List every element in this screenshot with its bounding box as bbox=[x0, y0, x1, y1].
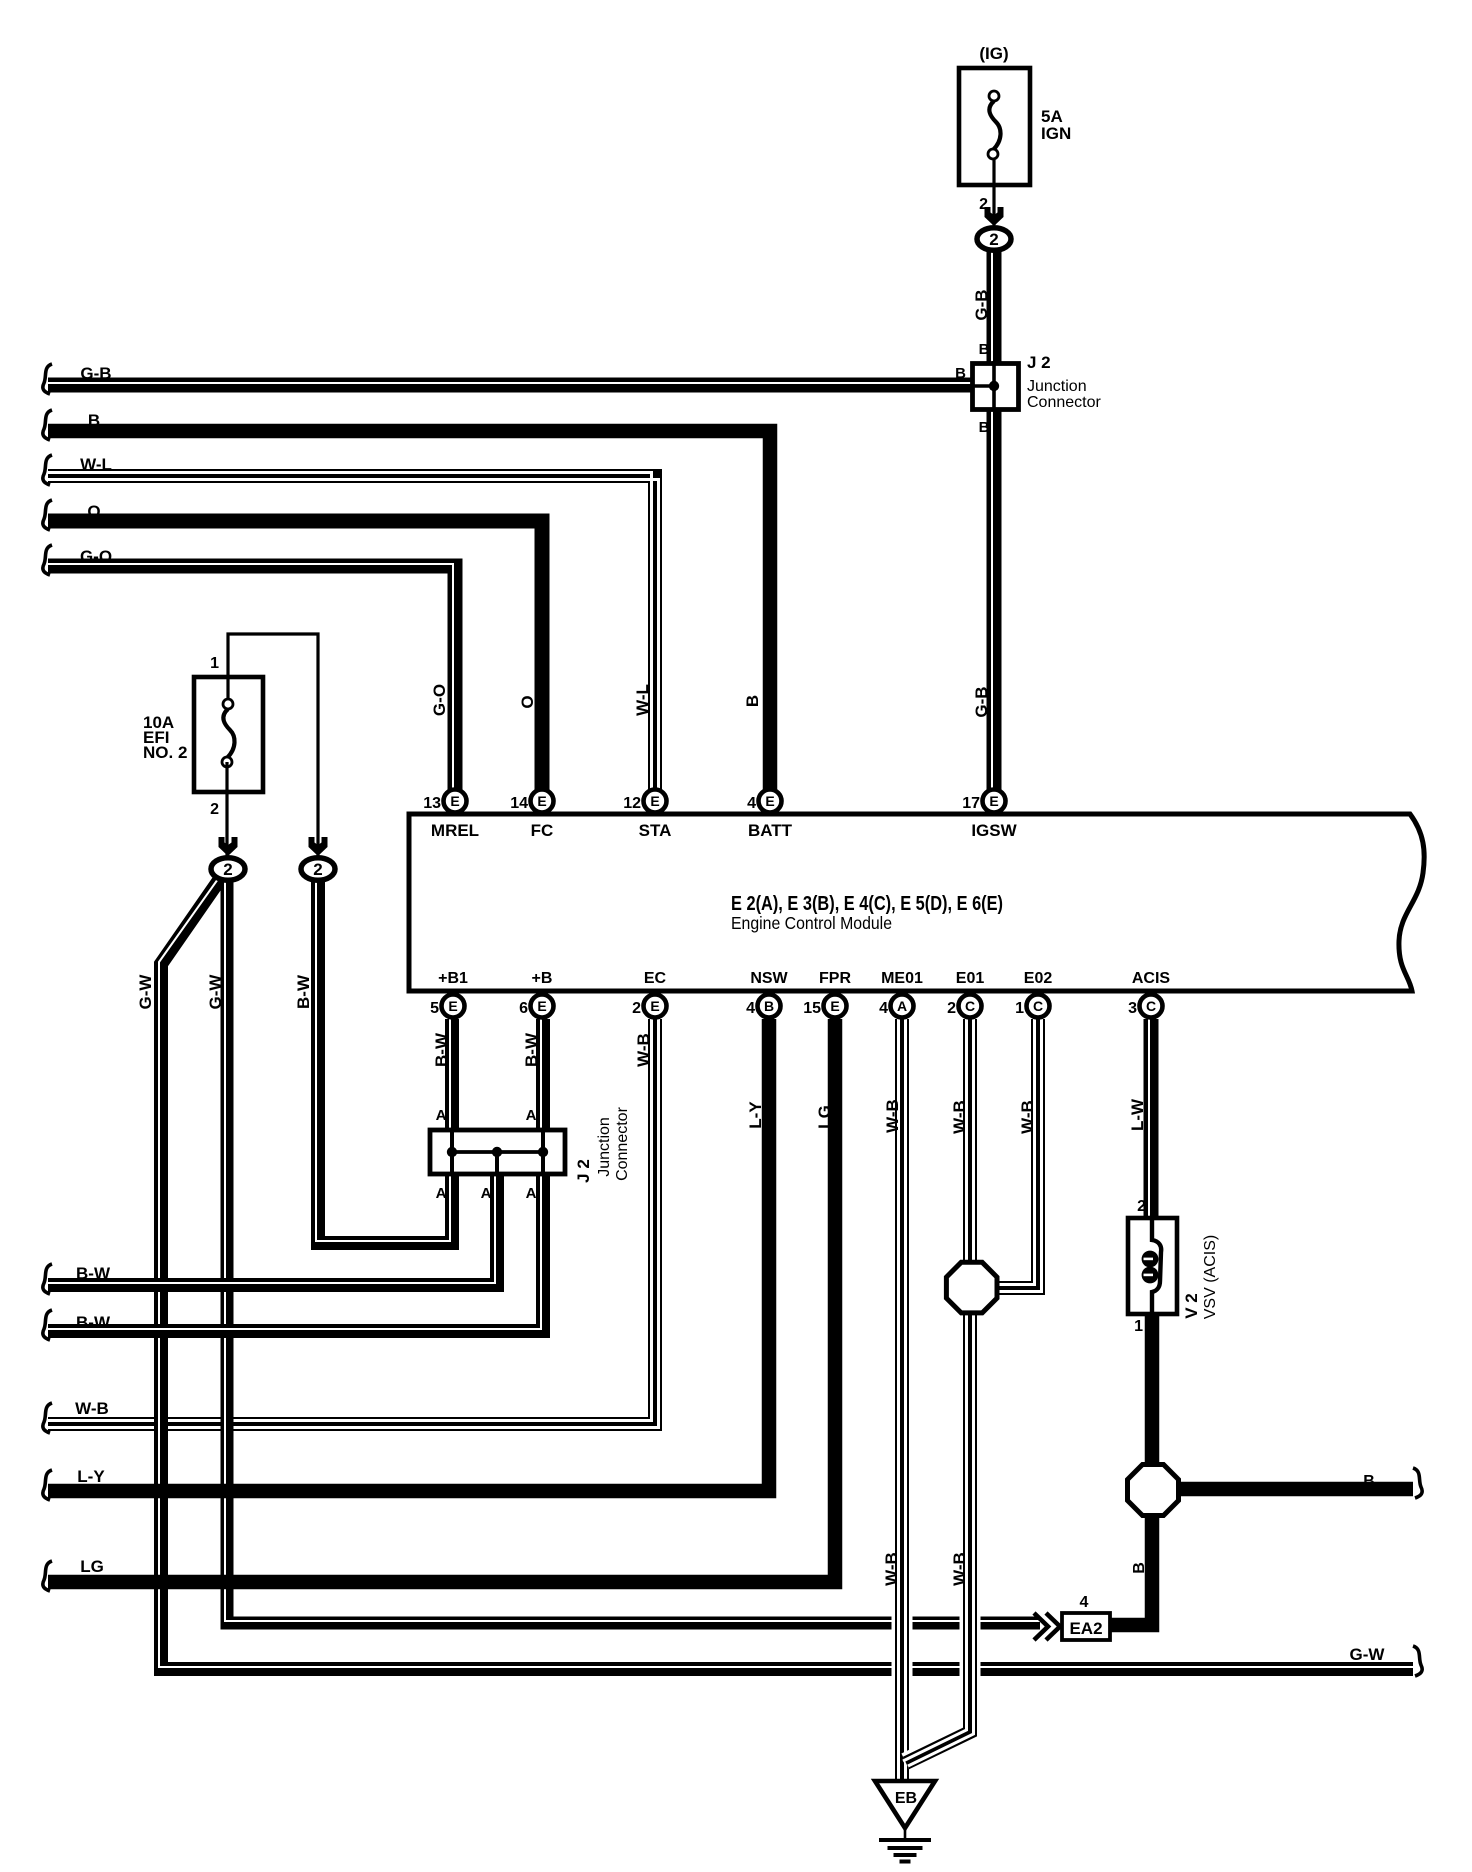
connector EA2 box bbox=[1062, 1613, 1110, 1640]
svg-text:2: 2 bbox=[1137, 1198, 1146, 1215]
svg-text:W-L: W-L bbox=[80, 455, 112, 474]
wire G-O from left edge to ECM pin MREL bbox=[48, 566, 455, 792]
svg-text:2: 2 bbox=[947, 1000, 956, 1017]
svg-text:17: 17 bbox=[962, 795, 980, 812]
svg-text:E: E bbox=[537, 998, 546, 1014]
svg-text:NSW: NSW bbox=[750, 970, 788, 987]
svg-text:A: A bbox=[526, 1185, 537, 1202]
ECM bottom pin 5 (+B1) bbox=[442, 995, 465, 1018]
wire LG from ECM pin FPR to left edge bbox=[48, 1019, 835, 1582]
svg-text:G-B: G-B bbox=[972, 289, 991, 320]
svg-text:O: O bbox=[87, 502, 100, 521]
left edge hook of wire LG bbox=[43, 1561, 52, 1591]
svg-text:15: 15 bbox=[803, 1000, 821, 1017]
svg-text:1: 1 bbox=[1134, 1318, 1143, 1335]
svg-text:G-O: G-O bbox=[430, 684, 449, 716]
svg-text:W-B: W-B bbox=[75, 1399, 109, 1418]
svg-text:13: 13 bbox=[423, 795, 441, 812]
ECM bottom pin 1 (E02) bbox=[1027, 995, 1050, 1018]
svg-text:E: E bbox=[650, 793, 659, 809]
svg-text:W-B: W-B bbox=[634, 1033, 653, 1067]
svg-text:G-B: G-B bbox=[80, 364, 111, 383]
wire B-W from junction J2 centre pin to left edge bbox=[48, 1175, 497, 1285]
svg-text:E02: E02 bbox=[1024, 970, 1053, 987]
wire W-L from left edge to ECM pin STA bbox=[48, 476, 655, 792]
svg-text:V 2: V 2 bbox=[1182, 1293, 1201, 1319]
ECM top pin 13 (MREL) bbox=[444, 790, 467, 813]
left edge hook of wire W-B bbox=[43, 1403, 52, 1433]
wire G-B horizontal from left edge to junction J2 bbox=[48, 378, 973, 393]
arrow into connector 2 (IG circuit) bbox=[985, 207, 1004, 226]
svg-text:C: C bbox=[1033, 998, 1043, 1014]
svg-text:+B: +B bbox=[532, 970, 553, 987]
ground symbol bbox=[879, 1829, 931, 1862]
left edge hook of wire L-Y bbox=[43, 1470, 52, 1500]
wire B-W from connector 2 to junction J2 bbox=[318, 879, 452, 1243]
svg-text:3: 3 bbox=[1128, 1000, 1137, 1017]
wire W-B from ECM pin ME01 to ground EB bbox=[895, 1019, 909, 1785]
ECM bottom pin 6 (+B) bbox=[531, 995, 554, 1018]
ECM bottom pin 2 (E01) bbox=[959, 995, 982, 1018]
svg-text:E: E bbox=[537, 793, 546, 809]
svg-text:O: O bbox=[518, 695, 537, 708]
fuse 5A pin 2 lead bbox=[992, 159, 995, 225]
svg-text:Connector: Connector bbox=[1027, 394, 1101, 411]
svg-text:LG: LG bbox=[80, 1557, 104, 1576]
svg-text:A: A bbox=[526, 1107, 537, 1124]
svg-text:4: 4 bbox=[747, 795, 756, 812]
svg-text:2: 2 bbox=[989, 230, 998, 249]
junction connector J2 (bottom) bbox=[430, 1130, 565, 1174]
svg-text:(IG): (IG) bbox=[979, 44, 1008, 63]
svg-text:E: E bbox=[830, 998, 839, 1014]
ECM top pin 14 (FC) bbox=[531, 790, 554, 813]
connector 2 (EFI feed right) bbox=[301, 858, 335, 881]
svg-text:W-B: W-B bbox=[883, 1099, 902, 1133]
svg-text:A: A bbox=[897, 998, 907, 1014]
svg-text:Engine Control Module: Engine Control Module bbox=[731, 913, 892, 933]
wire W-B from ECM pin E02 to connector node bbox=[995, 1019, 1038, 1288]
svg-text:4: 4 bbox=[1080, 1594, 1089, 1611]
ECM top pin 4 (BATT) bbox=[759, 790, 782, 813]
svg-text:G-W: G-W bbox=[206, 974, 225, 1010]
ECM bottom pin 15 (FPR) bbox=[824, 995, 847, 1018]
svg-text:FC: FC bbox=[531, 821, 554, 840]
wire B-W from junction J2 to ECM pin +B1 bbox=[445, 1019, 459, 1129]
fuse 5A IGN bbox=[959, 68, 1030, 185]
svg-text:L-W: L-W bbox=[1128, 1098, 1147, 1131]
wire B from connector node to right edge bbox=[1177, 1482, 1413, 1497]
svg-text:MREL: MREL bbox=[431, 821, 479, 840]
fuse 10A pin 1 lead bbox=[228, 634, 318, 856]
fuse 10A EFI NO. 2 bbox=[194, 677, 263, 792]
svg-text:G-W: G-W bbox=[136, 974, 155, 1010]
wire B-W from junction J2 to left edge bbox=[48, 1175, 543, 1331]
svg-text:Junction: Junction bbox=[1027, 378, 1087, 395]
left edge hook of wire B-W bbox=[43, 1264, 52, 1294]
svg-text:BATT: BATT bbox=[748, 821, 793, 840]
svg-text:C: C bbox=[1146, 998, 1156, 1014]
svg-text:IGSW: IGSW bbox=[971, 821, 1017, 840]
svg-text:B: B bbox=[1363, 1473, 1375, 1490]
wire L-Y from ECM pin NSW to left edge bbox=[48, 1019, 769, 1491]
svg-text:B: B bbox=[764, 998, 774, 1014]
J2 internal bus, wires and junction dots bbox=[447, 1128, 548, 1176]
svg-text:E: E bbox=[989, 793, 998, 809]
svg-text:6: 6 bbox=[519, 1000, 528, 1017]
svg-text:EC: EC bbox=[644, 970, 667, 987]
wire B from VSV V2 to connector node bbox=[1145, 1310, 1160, 1466]
svg-text:B: B bbox=[88, 411, 100, 430]
VSV V2 (ACIS) bbox=[1128, 1216, 1177, 1316]
ECM bottom pin 2 (EC) bbox=[644, 995, 667, 1018]
svg-text:A: A bbox=[481, 1185, 492, 1202]
svg-text:5: 5 bbox=[430, 1000, 439, 1017]
svg-text:Junction: Junction bbox=[596, 1117, 613, 1177]
svg-text:STA: STA bbox=[639, 821, 672, 840]
left edge hook of wire O bbox=[43, 500, 52, 530]
connector 2 (ignition feed) bbox=[977, 228, 1011, 251]
wire G-W from connector 2 down and right to right edge bbox=[161, 879, 1413, 1669]
left edge hook of wire G-B bbox=[43, 364, 52, 394]
svg-text:14: 14 bbox=[510, 795, 528, 812]
svg-text:B: B bbox=[979, 419, 990, 436]
svg-text:B-W: B-W bbox=[522, 1032, 541, 1067]
ground EB triangle bbox=[875, 1781, 935, 1828]
white casing of wire W-B (E01) bbox=[906, 1019, 970, 1763]
right edge hook of wire G-W bbox=[1413, 1646, 1422, 1676]
left edge hook of wire G-O bbox=[43, 545, 52, 575]
wire O from left edge to ECM pin FC bbox=[48, 521, 542, 792]
wire G-B vertical from junction J2 to ECM pin IGSW bbox=[987, 410, 1002, 792]
svg-text:1: 1 bbox=[210, 655, 219, 672]
left edge hook of wire B bbox=[43, 410, 52, 440]
svg-text:B: B bbox=[979, 341, 990, 358]
svg-text:G-W: G-W bbox=[1350, 1645, 1386, 1664]
svg-text:ME01: ME01 bbox=[881, 970, 923, 987]
svg-text:J 2: J 2 bbox=[1027, 353, 1051, 372]
wire B from connector node down to connector EA2 bbox=[1108, 1514, 1152, 1625]
svg-text:E: E bbox=[450, 793, 459, 809]
svg-text:G-B: G-B bbox=[972, 686, 991, 717]
arrow into connector 2 (EFI feed left) bbox=[219, 837, 238, 856]
wire W-B from ECM pin EC to left edge bbox=[48, 1019, 655, 1424]
svg-text:Connector: Connector bbox=[614, 1106, 631, 1180]
ECM box: Engine Control Module bbox=[409, 814, 1424, 991]
svg-text:EA2: EA2 bbox=[1069, 1619, 1102, 1638]
connector EA2 arrows bbox=[1034, 1613, 1048, 1640]
svg-text:L-Y: L-Y bbox=[77, 1467, 105, 1486]
svg-text:J 2: J 2 bbox=[574, 1159, 593, 1183]
ECM bottom pin 4 (NSW) bbox=[758, 995, 781, 1018]
svg-text:ACIS: ACIS bbox=[1132, 970, 1171, 987]
left edge hook of wire B-W bbox=[43, 1310, 52, 1340]
svg-text:B-W: B-W bbox=[294, 974, 313, 1009]
svg-text:C: C bbox=[965, 998, 975, 1014]
svg-text:+B1: +B1 bbox=[438, 970, 468, 987]
wire W-B from ECM pin E01 to ground EB bbox=[906, 1019, 970, 1763]
ECM bottom pin 4 (ME01) bbox=[891, 995, 914, 1018]
svg-text:12: 12 bbox=[623, 795, 641, 812]
connector node (octagon) on wire W-B bbox=[946, 1262, 997, 1313]
connector node (octagon) on wire B bbox=[1128, 1465, 1179, 1516]
svg-text:B-W: B-W bbox=[432, 1032, 451, 1067]
svg-text:B: B bbox=[743, 695, 762, 707]
junction J2 internal wire and dot bbox=[972, 361, 999, 410]
svg-text:E 2(A), E 3(B), E 4(C), E 5(D): E 2(A), E 3(B), E 4(C), E 5(D), E 6(E) bbox=[731, 893, 1003, 915]
ECM bottom pin 3 (ACIS) bbox=[1140, 995, 1163, 1018]
svg-text:4: 4 bbox=[879, 1000, 888, 1017]
svg-text:B: B bbox=[955, 365, 966, 382]
svg-text:B: B bbox=[1131, 1562, 1148, 1574]
svg-text:A: A bbox=[436, 1107, 447, 1124]
svg-text:G-O: G-O bbox=[80, 547, 112, 566]
svg-text:W-B: W-B bbox=[950, 1552, 969, 1586]
ECM top pin 12 (STA) bbox=[644, 790, 667, 813]
fuse 10A pin 2 lead bbox=[225, 762, 228, 856]
connector 2 (EFI feed left) bbox=[211, 858, 245, 881]
svg-text:2: 2 bbox=[632, 1000, 641, 1017]
svg-text:B-W: B-W bbox=[76, 1264, 111, 1283]
svg-text:L-Y: L-Y bbox=[746, 1101, 765, 1129]
svg-text:2: 2 bbox=[210, 801, 219, 818]
arrow into connector 2 (EFI feed right) bbox=[309, 837, 328, 856]
svg-text:E: E bbox=[448, 998, 457, 1014]
svg-text:FPR: FPR bbox=[819, 970, 851, 987]
svg-text:A: A bbox=[436, 1185, 447, 1202]
ECM top pin 17 (IGSW) bbox=[983, 790, 1006, 813]
svg-text:NO. 2: NO. 2 bbox=[143, 743, 187, 762]
svg-text:LG: LG bbox=[815, 1105, 834, 1129]
wire B from left edge to ECM pin BATT bbox=[48, 431, 770, 792]
junction connector J2 (top) bbox=[973, 364, 1019, 410]
wire G-W from connector 2 down to connector EA2 bbox=[227, 879, 1040, 1623]
svg-text:1: 1 bbox=[1015, 1000, 1024, 1017]
svg-text:E01: E01 bbox=[956, 970, 985, 987]
svg-text:EB: EB bbox=[895, 1790, 917, 1807]
wire B-W from ECM pin +B to junction J2 bbox=[536, 1019, 550, 1129]
svg-text:2: 2 bbox=[313, 860, 322, 879]
wire L-W from ECM pin ACIS to VSV V2 bbox=[1144, 1019, 1159, 1222]
left edge hook of wire W-L bbox=[43, 455, 52, 485]
svg-text:W-L: W-L bbox=[633, 684, 652, 716]
svg-text:B-W: B-W bbox=[76, 1313, 111, 1332]
svg-text:E: E bbox=[650, 998, 659, 1014]
svg-text:4: 4 bbox=[746, 1000, 755, 1017]
white casing of wire W-B (ME01) bbox=[892, 1019, 913, 1785]
right edge hook of wire B bbox=[1413, 1468, 1422, 1498]
svg-text:E: E bbox=[765, 793, 774, 809]
svg-text:2: 2 bbox=[223, 860, 232, 879]
svg-text:W-B: W-B bbox=[882, 1552, 901, 1586]
svg-text:VSV (ACIS): VSV (ACIS) bbox=[1202, 1235, 1219, 1319]
svg-text:W-B: W-B bbox=[1018, 1100, 1037, 1134]
wire G-B vertical from connector 2 to junction J2 bbox=[987, 251, 1002, 363]
svg-text:IGN: IGN bbox=[1041, 124, 1071, 143]
svg-text:W-B: W-B bbox=[950, 1100, 969, 1134]
